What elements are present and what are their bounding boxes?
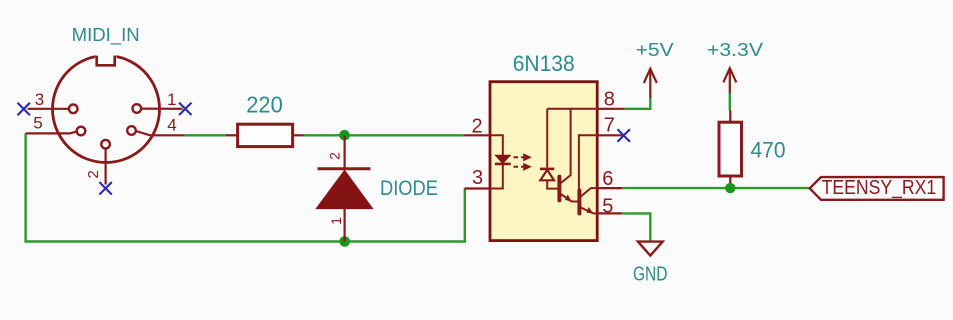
opto coupling arrow top bbox=[514, 155, 530, 160]
junction dot at R470/pin6 wire bbox=[725, 183, 735, 193]
svg-text:+3.3V: +3.3V bbox=[707, 40, 763, 60]
svg-text:MIDI_IN: MIDI_IN bbox=[72, 25, 140, 46]
junction dot at diode bottom bbox=[339, 236, 350, 247]
svg-text:TEENSY_RX1: TEENSY_RX1 bbox=[822, 177, 937, 199]
svg-text:8: 8 bbox=[604, 88, 615, 110]
opto LED triangle bbox=[495, 155, 510, 163]
opto pin 7 interior to Q2 base bbox=[579, 135, 597, 190]
diode D1 body triangle bbox=[316, 170, 372, 208]
opto LED cathode bar bbox=[495, 163, 511, 166]
svg-text:5: 5 bbox=[602, 195, 613, 217]
wire: MIDI pin5 left/down/bottom rail/up to opto pin3 bbox=[26, 133, 465, 241]
pin 4 circle bbox=[127, 126, 136, 135]
power symbol +5V bbox=[636, 40, 674, 98]
opto photodiode cathode line bbox=[546, 109, 548, 168]
opto Q2 emitter bbox=[581, 208, 597, 214]
pin 2 stub bbox=[104, 149, 106, 185]
wire: opto pin5 to GND bbox=[622, 213, 650, 241]
opto photodiode triangle bbox=[540, 170, 554, 181]
connector notch erase bbox=[95, 51, 116, 65]
svg-text:2: 2 bbox=[85, 170, 102, 178]
R470 lower lead bbox=[729, 176, 731, 188]
diode D1 cathode bar bbox=[318, 167, 371, 170]
svg-text:3: 3 bbox=[35, 90, 44, 109]
wire: opto pin8 to +5V bbox=[625, 98, 651, 108]
no-connect X pin 3 bbox=[18, 103, 30, 115]
opto Q2 base bar bbox=[577, 191, 581, 214]
opto Q1 emitter bbox=[561, 194, 579, 202]
svg-text:2: 2 bbox=[327, 152, 343, 160]
opto pin 6 stub bbox=[597, 187, 622, 189]
pin 1 circle bbox=[133, 104, 142, 113]
svg-text:DIODE: DIODE bbox=[380, 177, 438, 200]
opto Q1 base bar bbox=[557, 177, 561, 201]
svg-text:6N138: 6N138 bbox=[513, 51, 575, 76]
svg-text:5: 5 bbox=[33, 113, 42, 132]
R220 left lead bbox=[226, 134, 238, 136]
svg-text:GND: GND bbox=[633, 264, 668, 286]
svg-text:7: 7 bbox=[604, 115, 615, 137]
connector notch outline bbox=[97, 56, 115, 66]
svg-text:3: 3 bbox=[472, 167, 483, 189]
opto Q2 collector bbox=[581, 188, 597, 196]
opto pin 5 stub bbox=[597, 212, 622, 214]
pin 3 circle bbox=[69, 105, 78, 114]
svg-text:6: 6 bbox=[602, 168, 613, 190]
opto photodiode anode to Q1 base bbox=[547, 180, 558, 188]
pin 4 stub bbox=[136, 131, 185, 135]
pin 3 stub bbox=[28, 108, 69, 110]
opto interior top rail (pin 8) bbox=[547, 108, 597, 110]
opto LED anode path bbox=[490, 135, 503, 155]
hierarchical label TEENSY_RX1 bbox=[810, 177, 944, 200]
opto pin 2 stub bbox=[464, 134, 490, 136]
opto Q1 collector bbox=[561, 109, 571, 183]
R470 upper lead bbox=[729, 111, 731, 123]
opto pin 3 stub bbox=[464, 187, 490, 189]
opto pin 7 stub bbox=[597, 134, 622, 136]
wire: MIDI pin4 to R220 bbox=[185, 134, 226, 136]
pin 5 stub bbox=[26, 131, 77, 133]
svg-text:2: 2 bbox=[471, 116, 482, 138]
diode D1 pin 1 lead bbox=[344, 209, 346, 242]
wire: R220 right lead to junction and opto pin2 bbox=[304, 134, 464, 136]
pin 5 circle bbox=[77, 127, 86, 136]
svg-text:220: 220 bbox=[246, 92, 283, 118]
svg-text:4: 4 bbox=[167, 116, 176, 135]
power symbol +3.3V bbox=[707, 40, 763, 93]
opto Q1 emitter arrow bbox=[565, 195, 572, 202]
ground symbol bbox=[638, 242, 663, 256]
resistor R 470 (vertical) bbox=[719, 122, 742, 176]
no-connect X pin 1 bbox=[179, 103, 191, 115]
wire: R220 to junction to opto pin2 bbox=[293, 134, 304, 136]
opto U1 6N138 body bbox=[490, 82, 597, 241]
svg-text:1: 1 bbox=[328, 217, 344, 225]
opto Q2 emitter arrow bbox=[587, 207, 594, 213]
no-connect X pin 7 bbox=[618, 129, 630, 141]
pin 2 circle bbox=[101, 140, 110, 149]
wire: opto pin6 to TEENSY_RX1 bbox=[622, 187, 809, 189]
connector J1 DIN-5 body circle bbox=[53, 56, 160, 163]
opto LED cathode path to pin 3 bbox=[490, 164, 503, 189]
diode D1 pin 2 lead bbox=[344, 135, 346, 169]
resistor R 220 bbox=[238, 124, 293, 146]
svg-text:470: 470 bbox=[751, 138, 786, 163]
opto coupling arrow bottom bbox=[514, 164, 530, 169]
no-connect X pin 2 bbox=[99, 182, 111, 194]
pin 1 stub bbox=[141, 107, 182, 109]
svg-text:+5V: +5V bbox=[636, 40, 674, 60]
junction dot at R220/diode top bbox=[339, 130, 350, 141]
opto photodiode bar bbox=[540, 168, 554, 171]
opto pin 8 stub bbox=[597, 108, 625, 110]
wire: +3.3V to R470 bbox=[729, 93, 731, 111]
svg-text:1: 1 bbox=[167, 90, 176, 109]
